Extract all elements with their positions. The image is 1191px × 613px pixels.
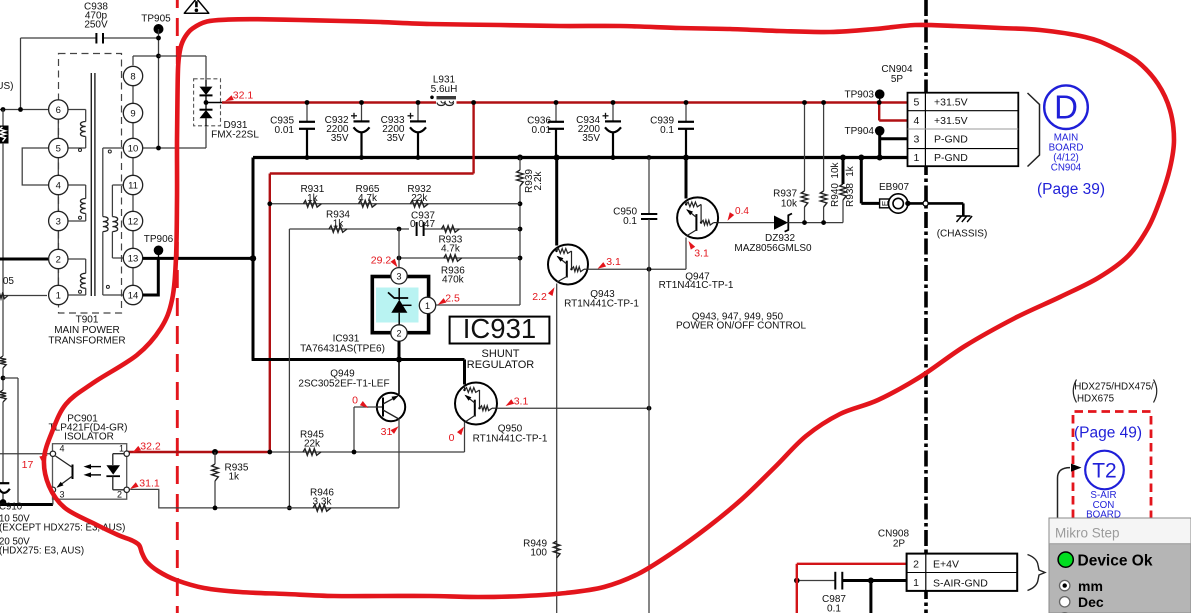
resistor R931 <box>303 201 321 208</box>
TP904 <box>875 126 885 136</box>
wire branch <box>3 377 18 379</box>
D main board circle <box>1044 85 1088 129</box>
svg-text:3: 3 <box>913 133 919 145</box>
svg-text:2P: 2P <box>893 539 906 550</box>
connector CN904 <box>908 93 1019 167</box>
IC931 big label box <box>450 317 550 344</box>
svg-text:5: 5 <box>56 143 61 154</box>
svg-text:12: 12 <box>128 216 139 227</box>
wire to pin 1 with partial resistor <box>0 295 47 297</box>
svg-text:0.047: 0.047 <box>410 219 435 230</box>
svg-text:0.1: 0.1 <box>827 604 841 613</box>
radio Dec <box>1060 597 1070 607</box>
chassis ground <box>962 203 965 216</box>
svg-text:D: D <box>1054 89 1078 126</box>
svg-text:32.2: 32.2 <box>140 441 161 453</box>
thick wire bottom-left <box>0 503 53 506</box>
Q943 emitter line <box>588 268 686 270</box>
Q949 collector wire down <box>398 419 400 508</box>
svg-text:31.1: 31.1 <box>139 477 160 489</box>
svg-text:C910: C910 <box>0 502 23 513</box>
svg-text:TA76431AS(TPE6): TA76431AS(TPE6) <box>300 344 385 355</box>
svg-text:5P: 5P <box>891 74 904 85</box>
svg-text:100: 100 <box>530 548 547 559</box>
resistor R937 <box>804 103 806 192</box>
resistor R933 <box>441 226 459 233</box>
resistor R936 <box>444 255 462 262</box>
winding 6-5 <box>68 109 86 111</box>
svg-text:1: 1 <box>56 290 61 301</box>
T2 circle <box>1085 451 1124 490</box>
capacitor C932 <box>361 103 363 122</box>
svg-text:2.2k: 2.2k <box>533 171 544 191</box>
svg-text:T2: T2 <box>1092 460 1117 483</box>
svg-text:11: 11 <box>128 180 138 191</box>
svg-text:HDX675: HDX675 <box>1077 394 1115 405</box>
svg-text:Mikro Step: Mikro Step <box>1055 526 1120 541</box>
svg-text:6: 6 <box>56 105 61 116</box>
svg-text:3.3k: 3.3k <box>313 496 333 507</box>
svg-text:RT1N441C-TP-1: RT1N441C-TP-1 <box>473 434 548 445</box>
svg-text:32.1: 32.1 <box>233 89 254 101</box>
resistor R946 <box>313 505 331 512</box>
svg-text:MAIN POWER: MAIN POWER <box>54 325 120 336</box>
svg-text:1k: 1k <box>229 472 241 483</box>
transformer pin circles <box>49 100 68 119</box>
Mikro Step overlay window <box>1049 518 1191 613</box>
wire + cap C987 <box>797 580 835 582</box>
svg-text:2.2: 2.2 <box>532 291 547 303</box>
svg-text:1: 1 <box>913 152 919 164</box>
svg-text:ISOLATOR: ISOLATOR <box>64 432 114 443</box>
svg-text:TP906: TP906 <box>144 234 174 245</box>
svg-text:0: 0 <box>352 395 358 407</box>
svg-text:Dec: Dec <box>1078 594 1104 610</box>
svg-text:(HDX275: E3, AUS): (HDX275: E3, AUS) <box>0 546 84 557</box>
svg-text:2: 2 <box>396 329 401 339</box>
winding 4-3 <box>68 184 86 186</box>
winding 2-1 <box>68 258 86 260</box>
capacitor C936 <box>555 103 557 122</box>
svg-text:31: 31 <box>381 426 393 438</box>
left edge resistor chain (cut off) <box>2 110 4 127</box>
red dashed vertical boundary line <box>176 0 179 613</box>
pins 5-4 link <box>22 148 49 185</box>
svg-text:1: 1 <box>119 444 124 454</box>
svg-text:2.5: 2.5 <box>445 293 460 305</box>
svg-text:22k: 22k <box>304 438 321 449</box>
svg-text:Device Ok: Device Ok <box>1078 552 1153 569</box>
svg-text:8: 8 <box>130 71 135 82</box>
svg-text:4: 4 <box>913 115 919 127</box>
right pin column links <box>132 86 134 104</box>
resistor R945 <box>303 449 321 456</box>
left pin column links <box>57 119 59 138</box>
svg-text:CN904: CN904 <box>1051 163 1082 174</box>
svg-text:5.6uH: 5.6uH <box>431 84 458 95</box>
wire C938 top <box>21 37 97 39</box>
optocoupler PC901 <box>53 444 127 500</box>
svg-text:10: 10 <box>128 143 139 154</box>
svg-text:IC931: IC931 <box>463 313 536 344</box>
zener DZ932 <box>774 216 788 230</box>
resistor R949 <box>553 541 560 558</box>
resistor R939 <box>517 155 523 161</box>
resistor R940 <box>823 103 825 192</box>
wire left feed <box>20 38 22 110</box>
svg-text:3.1: 3.1 <box>606 256 621 268</box>
svg-text:10k: 10k <box>830 161 841 178</box>
svg-text:1: 1 <box>425 301 430 311</box>
svg-text:TP904: TP904 <box>845 126 875 137</box>
31.1 wire from PC901 pin2 <box>130 489 399 508</box>
red wire to CN908 pin2 <box>796 564 798 613</box>
eyelet EB907 <box>858 155 864 161</box>
svg-text:1k: 1k <box>307 193 319 204</box>
pin 10 wire to D931 <box>143 147 206 149</box>
transistor Q950 <box>455 383 497 425</box>
svg-text:R938: R938 <box>845 183 856 207</box>
svg-text:T901: T901 <box>76 315 99 326</box>
svg-text:EB907: EB907 <box>879 182 909 193</box>
transformer T901 dashed outline <box>59 54 122 314</box>
line R934/C937/R933 <box>289 228 520 230</box>
transistor Q943 <box>555 158 558 246</box>
resistor R934 <box>329 226 347 233</box>
svg-text:+31.5V: +31.5V <box>934 115 968 127</box>
pin circles <box>50 451 55 456</box>
svg-text:0.1: 0.1 <box>623 216 637 227</box>
pin1 wire <box>436 304 520 306</box>
IC931 shunt regulator <box>398 229 400 268</box>
internal LED <box>113 453 124 455</box>
transformer core <box>90 73 92 296</box>
line R936 <box>399 257 520 259</box>
svg-text:1k: 1k <box>845 165 856 177</box>
svg-text:TP905: TP905 <box>141 14 171 25</box>
svg-text:1k: 1k <box>333 218 345 229</box>
TP903 <box>875 89 885 99</box>
thick gnd wire down at x253 <box>252 158 255 360</box>
radio mm <box>1060 580 1070 590</box>
vertical x289 down <box>288 229 290 508</box>
Q949 base wire <box>353 407 355 452</box>
svg-text:0.01: 0.01 <box>275 125 295 136</box>
svg-text:35V: 35V <box>582 133 600 144</box>
svg-text:3: 3 <box>56 216 61 227</box>
thick wire to pin 2 <box>0 258 48 261</box>
red dashed S-AIR box <box>1073 412 1151 519</box>
TP905 <box>154 24 164 34</box>
maroon feedback wire down-left <box>472 103 474 174</box>
svg-text:US): US) <box>0 81 14 92</box>
svg-text:2: 2 <box>117 490 122 500</box>
divider line R931/R965/R932 <box>270 203 520 205</box>
svg-text:9: 9 <box>130 108 135 119</box>
CN904 brace <box>1028 93 1040 167</box>
svg-text:REGULATOR: REGULATOR <box>467 359 534 371</box>
svg-text:0.1: 0.1 <box>660 125 674 136</box>
wire IC931 pin2 to node <box>398 341 401 359</box>
transistor Q947 <box>685 158 688 199</box>
capacitor C937 <box>409 222 424 236</box>
svg-text:5: 5 <box>913 96 919 108</box>
svg-text:35V: 35V <box>387 133 405 144</box>
+31.5V rail (dark red) <box>222 101 436 103</box>
svg-text:3: 3 <box>396 271 401 281</box>
svg-text:13: 13 <box>128 253 139 264</box>
open junction on boundary <box>923 201 928 206</box>
svg-text:1: 1 <box>913 577 919 589</box>
svg-text:(CHASSIS): (CHASSIS) <box>937 229 988 240</box>
arrow into T2 <box>1058 468 1071 518</box>
svg-text:FMX-22SL: FMX-22SL <box>211 129 259 140</box>
CN908 brace <box>1028 555 1046 591</box>
svg-text:E+4V: E+4V <box>933 559 959 571</box>
thick wire to Q950 collector <box>463 360 466 385</box>
node line x520 <box>519 204 521 305</box>
svg-text:3.1: 3.1 <box>694 248 709 260</box>
pin14 wire <box>143 294 159 297</box>
capacitor C933 <box>417 103 419 122</box>
resistor R938 <box>842 158 845 185</box>
svg-text:4.7k: 4.7k <box>441 243 461 254</box>
svg-text:mm: mm <box>1078 578 1103 594</box>
warning triangle <box>184 0 209 13</box>
svg-text:HDX275/HDX475/: HDX275/HDX475/ <box>1074 382 1154 393</box>
capacitor C934 <box>612 103 614 122</box>
internal phototransistor <box>72 465 74 480</box>
svg-text:05: 05 <box>3 276 15 287</box>
svg-text:17: 17 <box>22 459 34 471</box>
green status light <box>1058 552 1073 567</box>
svg-text:RT1N441C-TP-1: RT1N441C-TP-1 <box>659 280 734 291</box>
capacitor C910 (cut off) <box>0 482 9 484</box>
resistor R935 <box>214 452 216 464</box>
wire to pin 6 <box>0 109 49 111</box>
svg-text:35V: 35V <box>331 133 349 144</box>
svg-text:4: 4 <box>56 180 61 191</box>
svg-text:TRANSFORMER: TRANSFORMER <box>48 336 125 347</box>
svg-text:P-GND: P-GND <box>934 134 968 146</box>
svg-text:14: 14 <box>128 290 139 301</box>
svg-text:3.1: 3.1 <box>514 396 529 408</box>
light arrows <box>86 466 101 468</box>
svg-text:+31.5V: +31.5V <box>934 97 968 109</box>
wire 32V line <box>270 451 465 453</box>
Q947 emitter to DZ932 <box>719 222 775 224</box>
svg-text:4.7k: 4.7k <box>358 193 378 204</box>
svg-text:RT1N441C-TP-1: RT1N441C-TP-1 <box>564 299 639 310</box>
svg-text:MAZ8056GMLS0: MAZ8056GMLS0 <box>734 243 812 254</box>
black dash-dot board boundary line <box>924 0 928 613</box>
svg-text:S-AIR-GND: S-AIR-GND <box>933 577 988 589</box>
winding 11-13 (secondary) <box>112 184 123 186</box>
3.1 output line <box>497 407 649 409</box>
svg-text:(Page 39): (Page 39) <box>1037 181 1105 198</box>
capacitor C950 <box>641 213 657 215</box>
svg-text:29.2: 29.2 <box>371 255 392 267</box>
svg-text:0.4: 0.4 <box>735 206 749 217</box>
svg-text:0.01: 0.01 <box>532 125 552 136</box>
svg-text:2: 2 <box>56 254 61 265</box>
svg-text:10k: 10k <box>781 199 798 210</box>
svg-text:4: 4 <box>59 444 64 454</box>
capacitor C935 <box>306 103 308 122</box>
resistor R965 <box>359 201 377 208</box>
svg-text:470k: 470k <box>442 274 465 285</box>
D931 feed wire <box>159 55 207 57</box>
resistor R932 <box>410 201 428 208</box>
TP906 + pin13 ground wire <box>143 257 255 260</box>
capacitor C939 <box>685 103 687 122</box>
pin 8 top wire <box>132 56 134 65</box>
winding 10-14 (secondary) <box>103 147 124 149</box>
svg-text:3: 3 <box>59 490 64 500</box>
transistor Q949 <box>398 360 400 395</box>
svg-text:22k: 22k <box>411 193 428 204</box>
svg-text:(Page 49): (Page 49) <box>1074 425 1142 442</box>
C950 line <box>647 155 652 160</box>
svg-text:P-GND: P-GND <box>934 152 968 164</box>
svg-text:POWER ON/OFF CONTROL: POWER ON/OFF CONTROL <box>676 320 806 331</box>
svg-text:2SC3052EF-T1-LEF: 2SC3052EF-T1-LEF <box>298 379 389 390</box>
svg-text:250V: 250V <box>84 19 108 30</box>
svg-text:0: 0 <box>449 432 455 444</box>
connector CN908 <box>907 554 1018 591</box>
P-GND rail <box>253 156 908 159</box>
capacitor C938 <box>95 33 97 44</box>
diode pair D931 <box>194 79 221 126</box>
svg-text:2: 2 <box>913 558 919 570</box>
svg-text:TP903: TP903 <box>845 90 875 101</box>
maroon CN904 pin4 branch <box>878 103 880 121</box>
rail junction dots <box>802 100 807 105</box>
